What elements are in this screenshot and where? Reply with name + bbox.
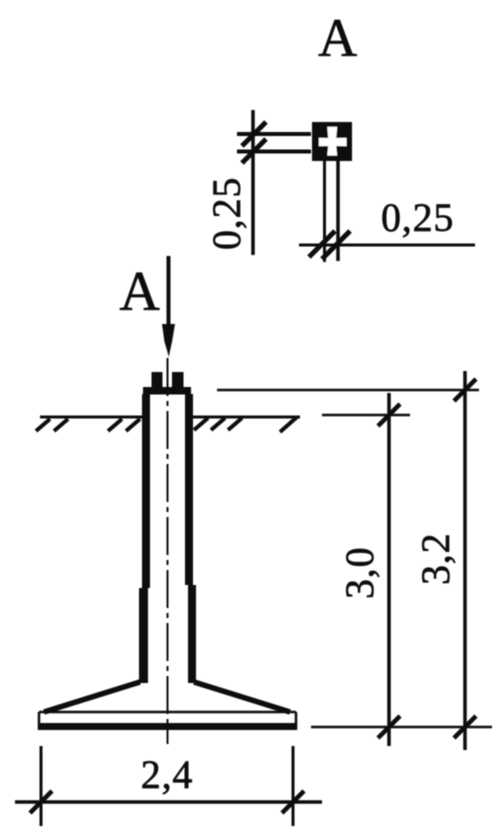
horizontal dimension line 0,25 (detail) [299,244,475,247]
footing slab right edge [295,712,298,730]
vertical dimension line 0,25 (detail) [251,110,255,255]
extension line from square bottom (left leg) [323,161,326,262]
dimension line 3,2 [463,371,467,750]
dimension tick (detail bottom right) [322,231,350,259]
ground extension line to 3,0 dimension [322,414,410,417]
extension line column top to 3,2 dimension [217,389,479,392]
extension line from square bottom-left [237,150,311,154]
dimension tick (detail lower) [242,139,266,163]
footing slab bottom bar [38,723,297,730]
tick at 2,4 left [30,791,52,813]
column centerline (dash-dot) [167,358,169,744]
extension line footing bottom to dimensions [311,726,492,729]
tick at 2,4 right [282,791,304,813]
column top bar [143,387,191,395]
footing left slope [44,682,140,712]
extension line footing bottom right for 2,4 [292,746,295,826]
column right wall upper [185,394,193,585]
tick at 3,2 bottom [454,716,476,738]
ground line right segment [193,416,300,419]
svg-text:A: A [318,8,358,68]
extension line footing bottom left for 2,4 [40,746,43,826]
footing slab left edge [38,712,41,730]
tick at 3,0 top [378,404,400,426]
svg-text:3,2: 3,2 [413,533,458,585]
svg-text:0,25: 0,25 [204,177,249,250]
footing slab top line [39,711,296,714]
ground line left segment [40,416,142,419]
dimension line 3,0 [387,393,391,746]
anchor tab left on column top [152,372,163,388]
dimension tick (detail upper) [242,122,266,146]
ground hatch strokes right group [194,417,297,432]
column left wall lower [139,588,148,683]
footing right slope [194,682,290,712]
extension line from square bottom (right leg) [336,161,340,261]
dimension tick (detail bottom left) [309,231,335,257]
tick at 3,0 bottom [378,716,400,738]
dimension line 2,4 [15,800,322,804]
ground hatch strokes left group [36,419,140,431]
svg-text:A: A [119,261,160,323]
column right wall lower [188,585,196,683]
column left wall upper [142,394,150,588]
tick at 3,2 top [454,379,476,401]
section square (column cross-section, blackened) [312,122,352,161]
white cross inside section square [319,127,347,156]
load arrow head [162,324,175,357]
load arrow shaft [167,256,171,338]
svg-text:0,25: 0,25 [381,195,454,240]
anchor tab right on column top [172,372,184,388]
svg-text:3,0: 3,0 [337,547,382,599]
extension line from square top-left [237,132,311,136]
svg-text:2,4: 2,4 [141,752,193,797]
